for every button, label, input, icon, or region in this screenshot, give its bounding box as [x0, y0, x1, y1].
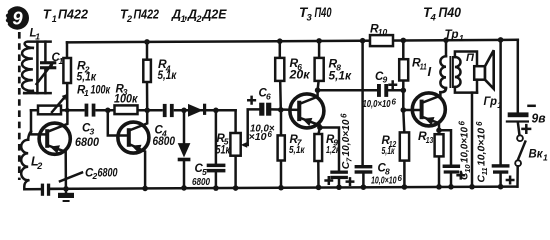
junction C11 / rail — [498, 184, 504, 190]
svg-text:2: 2 — [126, 14, 132, 24]
svg-text:1: 1 — [84, 88, 89, 98]
svg-text:100к: 100к — [91, 85, 111, 97]
junction R3/R4/C4 node — [144, 108, 150, 114]
svg-text:5,1к: 5,1к — [158, 70, 178, 82]
svg-text:11: 11 — [420, 61, 427, 71]
junction C5 / rail — [213, 185, 219, 191]
junction R7 / rail — [278, 185, 284, 191]
svg-text:3: 3 — [307, 13, 313, 24]
junction R5 / rail — [233, 185, 239, 191]
svg-text:100к: 100к — [114, 93, 139, 105]
transistor T4 — [403, 92, 445, 130]
electrolytic C11 — [492, 40, 514, 187]
junction T3 emitter node — [317, 125, 323, 131]
resistor R11 — [399, 40, 408, 110]
svg-text:9в: 9в — [532, 110, 546, 125]
junction T2 base node — [105, 108, 111, 114]
junction rail R8 — [316, 38, 322, 44]
svg-text:6800: 6800 — [75, 135, 99, 149]
ground — [58, 189, 74, 202]
wire T3 collector to C9 — [318, 89, 377, 92]
top power rail — [67, 40, 518, 43]
svg-text:6: 6 — [266, 91, 271, 101]
resistor R7 — [278, 110, 285, 188]
junction D2 / rail — [181, 185, 187, 191]
resistor R13 — [435, 134, 444, 187]
junction R6/R7/T3 base node — [278, 107, 284, 113]
junction D2 tap — [181, 108, 187, 114]
junction rail R11 — [401, 38, 407, 44]
svg-text:6: 6 — [475, 121, 484, 126]
svg-text:2: 2 — [36, 161, 42, 171]
svg-text:10,0×10: 10,0×10 — [363, 99, 391, 110]
resistor R4 — [143, 42, 151, 110]
junction C10 / rail — [448, 184, 454, 190]
svg-text:1: 1 — [543, 153, 548, 163]
resistor R2 — [63, 42, 71, 110]
ferrite rod dashed — [18, 32, 21, 180]
svg-text:I: I — [428, 64, 432, 79]
svg-text:Т: Т — [43, 7, 52, 22]
resistor R8 — [315, 41, 324, 90]
svg-text:10,0×10: 10,0×10 — [340, 119, 352, 156]
junction R9 / rail — [316, 185, 322, 191]
svg-text:10,0×10: 10,0×10 — [371, 175, 397, 186]
svg-text:5,1к: 5,1к — [329, 70, 353, 82]
electrolytic C10 — [439, 130, 464, 187]
svg-text:6: 6 — [458, 121, 467, 126]
junction speaker / rail — [469, 184, 475, 190]
svg-text:Гр: Гр — [484, 94, 498, 108]
loudspeaker Gr1 — [472, 50, 494, 186]
junction T4 base / R12 — [401, 107, 407, 113]
junction rail pre-R10 — [360, 38, 366, 44]
junction R13 / rail — [436, 184, 442, 190]
svg-text:5,1к: 5,1к — [382, 145, 395, 157]
electrolytic C6 — [248, 97, 297, 116]
svg-text:13: 13 — [426, 135, 434, 145]
svg-text:П: П — [466, 52, 475, 64]
diode D2 — [178, 110, 191, 188]
wire C9 to R11 node — [388, 89, 403, 92]
junction rail R4 — [144, 39, 150, 45]
junction ground / emitter T1 — [63, 186, 69, 192]
junction C8 / rail — [361, 184, 367, 190]
junction T3 collector node — [315, 87, 321, 93]
svg-text:П422: П422 — [134, 8, 160, 22]
svg-text:20к: 20к — [288, 70, 310, 82]
junction rail Tr1 — [443, 37, 449, 43]
capacitor C2 — [41, 184, 66, 196]
variable resistor R1 — [38, 94, 67, 114]
svg-text:10,0×10: 10,0×10 — [476, 128, 488, 166]
resistor R9 — [314, 128, 322, 188]
svg-text:6800: 6800 — [153, 134, 176, 148]
diode D1 — [188, 104, 206, 117]
svg-text:×10: ×10 — [249, 132, 267, 143]
variable capacitor C1 — [37, 42, 57, 94]
svg-text:51к: 51к — [216, 145, 231, 157]
svg-text:1: 1 — [35, 31, 40, 41]
svg-text:4: 4 — [430, 13, 437, 24]
svg-text:5,1к: 5,1к — [289, 144, 305, 156]
transistor T3 — [290, 90, 324, 128]
svg-text:6: 6 — [392, 97, 397, 106]
badge figure number 9 — [3, 6, 29, 29]
svg-text:Вк: Вк — [529, 147, 544, 161]
resistor R12 — [400, 110, 409, 187]
svg-text:П422: П422 — [58, 7, 89, 22]
transistor T2 — [108, 110, 149, 188]
svg-text:11: 11 — [480, 168, 489, 176]
junction C5 top — [213, 108, 219, 114]
junction rail R6 — [277, 38, 283, 44]
capacitor C3 — [85, 103, 96, 118]
svg-text:10: 10 — [463, 164, 472, 173]
coil L2 — [21, 131, 41, 189]
battery 9V — [506, 40, 535, 136]
svg-text:9: 9 — [383, 75, 388, 85]
junction R2/C3 node — [65, 108, 70, 113]
capacitor C4 — [163, 103, 174, 118]
junction C7 / rail — [336, 184, 342, 190]
transformer core — [450, 56, 453, 88]
svg-text:2: 2 — [196, 14, 202, 24]
svg-text:П40: П40 — [439, 5, 462, 20]
junction T4 emitter / R13 — [436, 128, 442, 134]
svg-text:1: 1 — [52, 14, 57, 24]
junction C9 / R11 — [401, 88, 407, 94]
svg-text:6: 6 — [398, 174, 403, 183]
resistor R3 — [115, 105, 138, 114]
svg-text:9: 9 — [12, 8, 23, 29]
mid signal wire — [31, 109, 236, 112]
svg-text:10,0×10: 10,0×10 — [458, 127, 470, 163]
junction rail C11 — [498, 37, 504, 43]
svg-text:6: 6 — [339, 113, 348, 118]
svg-text:5,1к: 5,1к — [77, 72, 98, 84]
junction R12 / rail — [402, 184, 408, 190]
supply filter capacitor C8 column — [347, 41, 373, 187]
electrolytic C9 — [377, 82, 396, 97]
svg-text:П40: П40 — [315, 5, 332, 20]
resistor R6 — [275, 41, 284, 110]
capacitor C5 — [207, 110, 226, 188]
potentiometer R5 — [230, 109, 259, 188]
svg-text:6: 6 — [268, 130, 273, 139]
resistor R10 in rail — [370, 35, 393, 46]
svg-text:1: 1 — [459, 33, 464, 43]
electrolytic C7 — [320, 128, 348, 188]
svg-text:6800: 6800 — [98, 167, 118, 179]
svg-text:10: 10 — [378, 27, 388, 37]
svg-text:6800: 6800 — [192, 176, 210, 188]
switch Vk1 — [515, 135, 525, 186]
bottom rail — [50, 187, 517, 189]
svg-text:Д2Е: Д2Е — [202, 8, 228, 22]
transformer Tr1 primary — [440, 40, 446, 92]
transformer Tr1 secondary — [455, 52, 477, 93]
junction T2 emitter / rail — [142, 186, 148, 192]
coil L1 — [22, 42, 51, 94]
transistor T1 — [31, 110, 70, 189]
